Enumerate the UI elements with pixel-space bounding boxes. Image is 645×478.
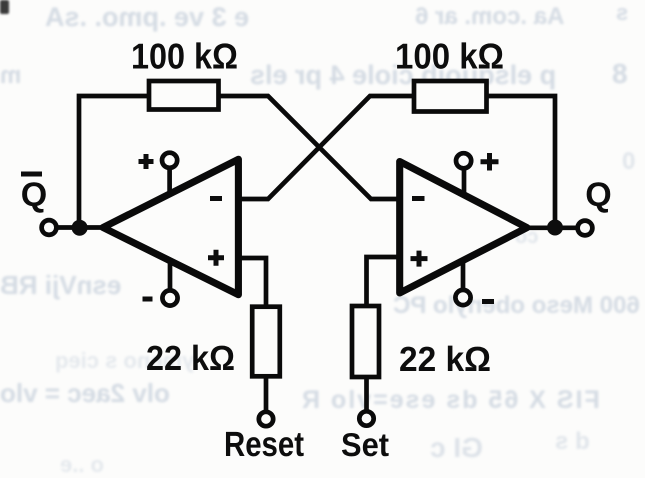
svg-text:100 kΩ: 100 kΩ (395, 36, 504, 77)
terminal circle: right op-amp V+ (456, 153, 471, 168)
terminal circle: Q output (578, 221, 593, 236)
label: left op-amp inverting input minus sign (210, 196, 222, 201)
wire: right op-amp output to Q terminal (522, 225, 585, 230)
wire: right 22k resistor to Set terminal (364, 375, 369, 413)
wire: Q-bar terminal to left op-amp output (49, 225, 112, 230)
op-amp U1 (left, points left) (103, 159, 238, 294)
label: left op-amp V+ plus sign (139, 154, 154, 169)
junction node at Q-bar (72, 220, 88, 236)
svg-text:Set: Set (341, 426, 389, 463)
label: left op-amp V- minus sign (143, 297, 153, 302)
terminal circle: Q-bar output (42, 220, 57, 235)
svg-text:22 kΩ: 22 kΩ (399, 340, 491, 379)
wire: right op-amp V- supply stem (461, 261, 466, 292)
label: right op-amp noninverting input plus sign (411, 251, 428, 267)
terminal circle: left op-amp V- (162, 290, 177, 305)
wire: right op-amp noninverting input to right 22k resistor (367, 257, 401, 310)
wire: left 100k resistor left lead down to Q-bar node (79, 96, 152, 228)
resistor R2 100 kOhm (top right) (414, 81, 487, 112)
label: right op-amp V- minus sign (482, 299, 494, 304)
op-amp U2 (right, points right) (400, 162, 527, 294)
wire: right 100k resistor left lead, diagonal to left op-amp inverting input (238, 96, 417, 199)
wire: left op-amp noninverting input to left 22k resistor (238, 258, 266, 310)
wire: left op-amp V- supply stem (168, 261, 173, 292)
wire: left 22k resistor to Reset terminal (264, 375, 269, 413)
bleed-through background text (decorative) (45, 2, 249, 33)
junction node at Q (547, 220, 563, 236)
wire: right op-amp V+ supply stem (462, 166, 467, 195)
terminal circle: Reset input (259, 412, 273, 426)
node label: Q-bar overbar (21, 172, 42, 177)
terminal circle: Set input (359, 411, 373, 425)
terminal circle: left op-amp V+ (162, 153, 177, 168)
label: right op-amp V+ plus sign (481, 153, 499, 171)
svg-text:Q: Q (21, 176, 47, 214)
svg-text:Reset: Reset (224, 425, 304, 464)
svg-text:22 kΩ: 22 kΩ (146, 339, 235, 378)
resistor R4 22 kOhm (bottom right) (352, 306, 379, 377)
label: left op-amp noninverting input plus sign (208, 250, 224, 266)
wire: left op-amp V+ supply stem (167, 166, 172, 194)
label: right op-amp inverting input minus sign (412, 196, 425, 201)
wire: left 100k resistor right lead, diagonal to right op-amp inverting input (216, 96, 400, 199)
svg-text:Q: Q (585, 176, 611, 214)
terminal circle: right op-amp V- (455, 290, 470, 305)
svg-text:100 kΩ: 100 kΩ (131, 36, 238, 77)
wire: right 100k resistor right lead down to Q node (484, 96, 555, 228)
resistor R1 100 kOhm (top left) (149, 81, 219, 110)
resistor R3 22 kOhm (bottom left) (252, 307, 280, 377)
